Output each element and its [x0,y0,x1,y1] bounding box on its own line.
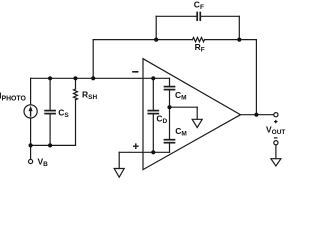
wire: feedback left vertical [92,40,94,79]
junction node: feedback at inverting input [91,76,95,80]
label VOUT plus sign [274,120,277,123]
resistor RSH [74,89,78,100]
op-amp plus sign [134,144,138,148]
wire: C_F top loop right vertical [238,16,240,39]
wire: mid ground tap horizontal [170,106,198,108]
junction node: CF right [237,38,241,42]
wire: photodiode branch upper [30,78,32,105]
terminal VOUT minus circle [274,141,278,145]
ground mid [192,119,202,127]
capacitor CM bottom [165,140,175,143]
junction node: CS bottom [48,143,52,147]
terminal VB circle [29,159,33,163]
junction node: CM mid [167,105,171,109]
wire: C_F top horizontal left segment [156,15,196,17]
op-amp U1 triangle [143,59,241,170]
wire: R_F feedback horizontal right [205,39,257,41]
wire: non-inverting ground stem [118,152,120,168]
junction node: CF left [154,38,158,42]
terminal VOUT plus circle [274,113,278,117]
junction node: photodiode bottom [29,143,33,147]
wire: output horizontal [241,114,274,116]
ground VOUT [271,159,281,166]
capacitor CM top [165,87,175,90]
label VOUT minus sign [274,137,278,139]
resistor RSH branch lower [75,100,77,146]
capacitor CD branch upper [152,78,154,110]
capacitor CF [197,13,200,21]
capacitor CS branch lower [49,114,51,145]
wire: photodiode branch lower [30,118,32,145]
wire: VOUT minus ground stem [275,145,277,159]
capacitor CD [148,111,158,114]
junction node: CS top [48,76,52,80]
wire: C_F top horizontal right segment [201,15,239,17]
current source IPHOTO circle [24,105,37,118]
ground non-inverting [114,169,124,178]
op-amp minus sign [133,71,138,73]
resistor RSH branch upper [75,78,77,89]
capacitor CM top branch lower [169,90,171,107]
wire: feedback right vertical to output [255,40,257,115]
capacitor CS [45,111,55,114]
wire: R_F feedback horizontal left [93,39,192,41]
resistor RF [193,37,205,41]
wire: inverting input horizontal [31,77,170,79]
wire: C_F top loop left vertical [155,16,157,39]
junction node: output [254,113,258,117]
junction node: CD top [151,76,155,80]
wire: non-inverting input horizontal [119,151,169,153]
junction node: RSH top [73,76,77,80]
capacitor CM bottom branch upper [169,107,171,139]
capacitor CM bottom branch lower [169,143,171,152]
wire: V_B stub [30,145,32,159]
wire: mid ground stem [196,107,198,119]
current source IPHOTO arrow [29,106,33,116]
capacitor CD branch lower [152,114,154,152]
junction node: CD bottom [151,150,155,154]
capacitor CM top branch upper [169,78,171,86]
wire: bottom rail [31,144,76,146]
capacitor CS branch upper [49,78,51,110]
